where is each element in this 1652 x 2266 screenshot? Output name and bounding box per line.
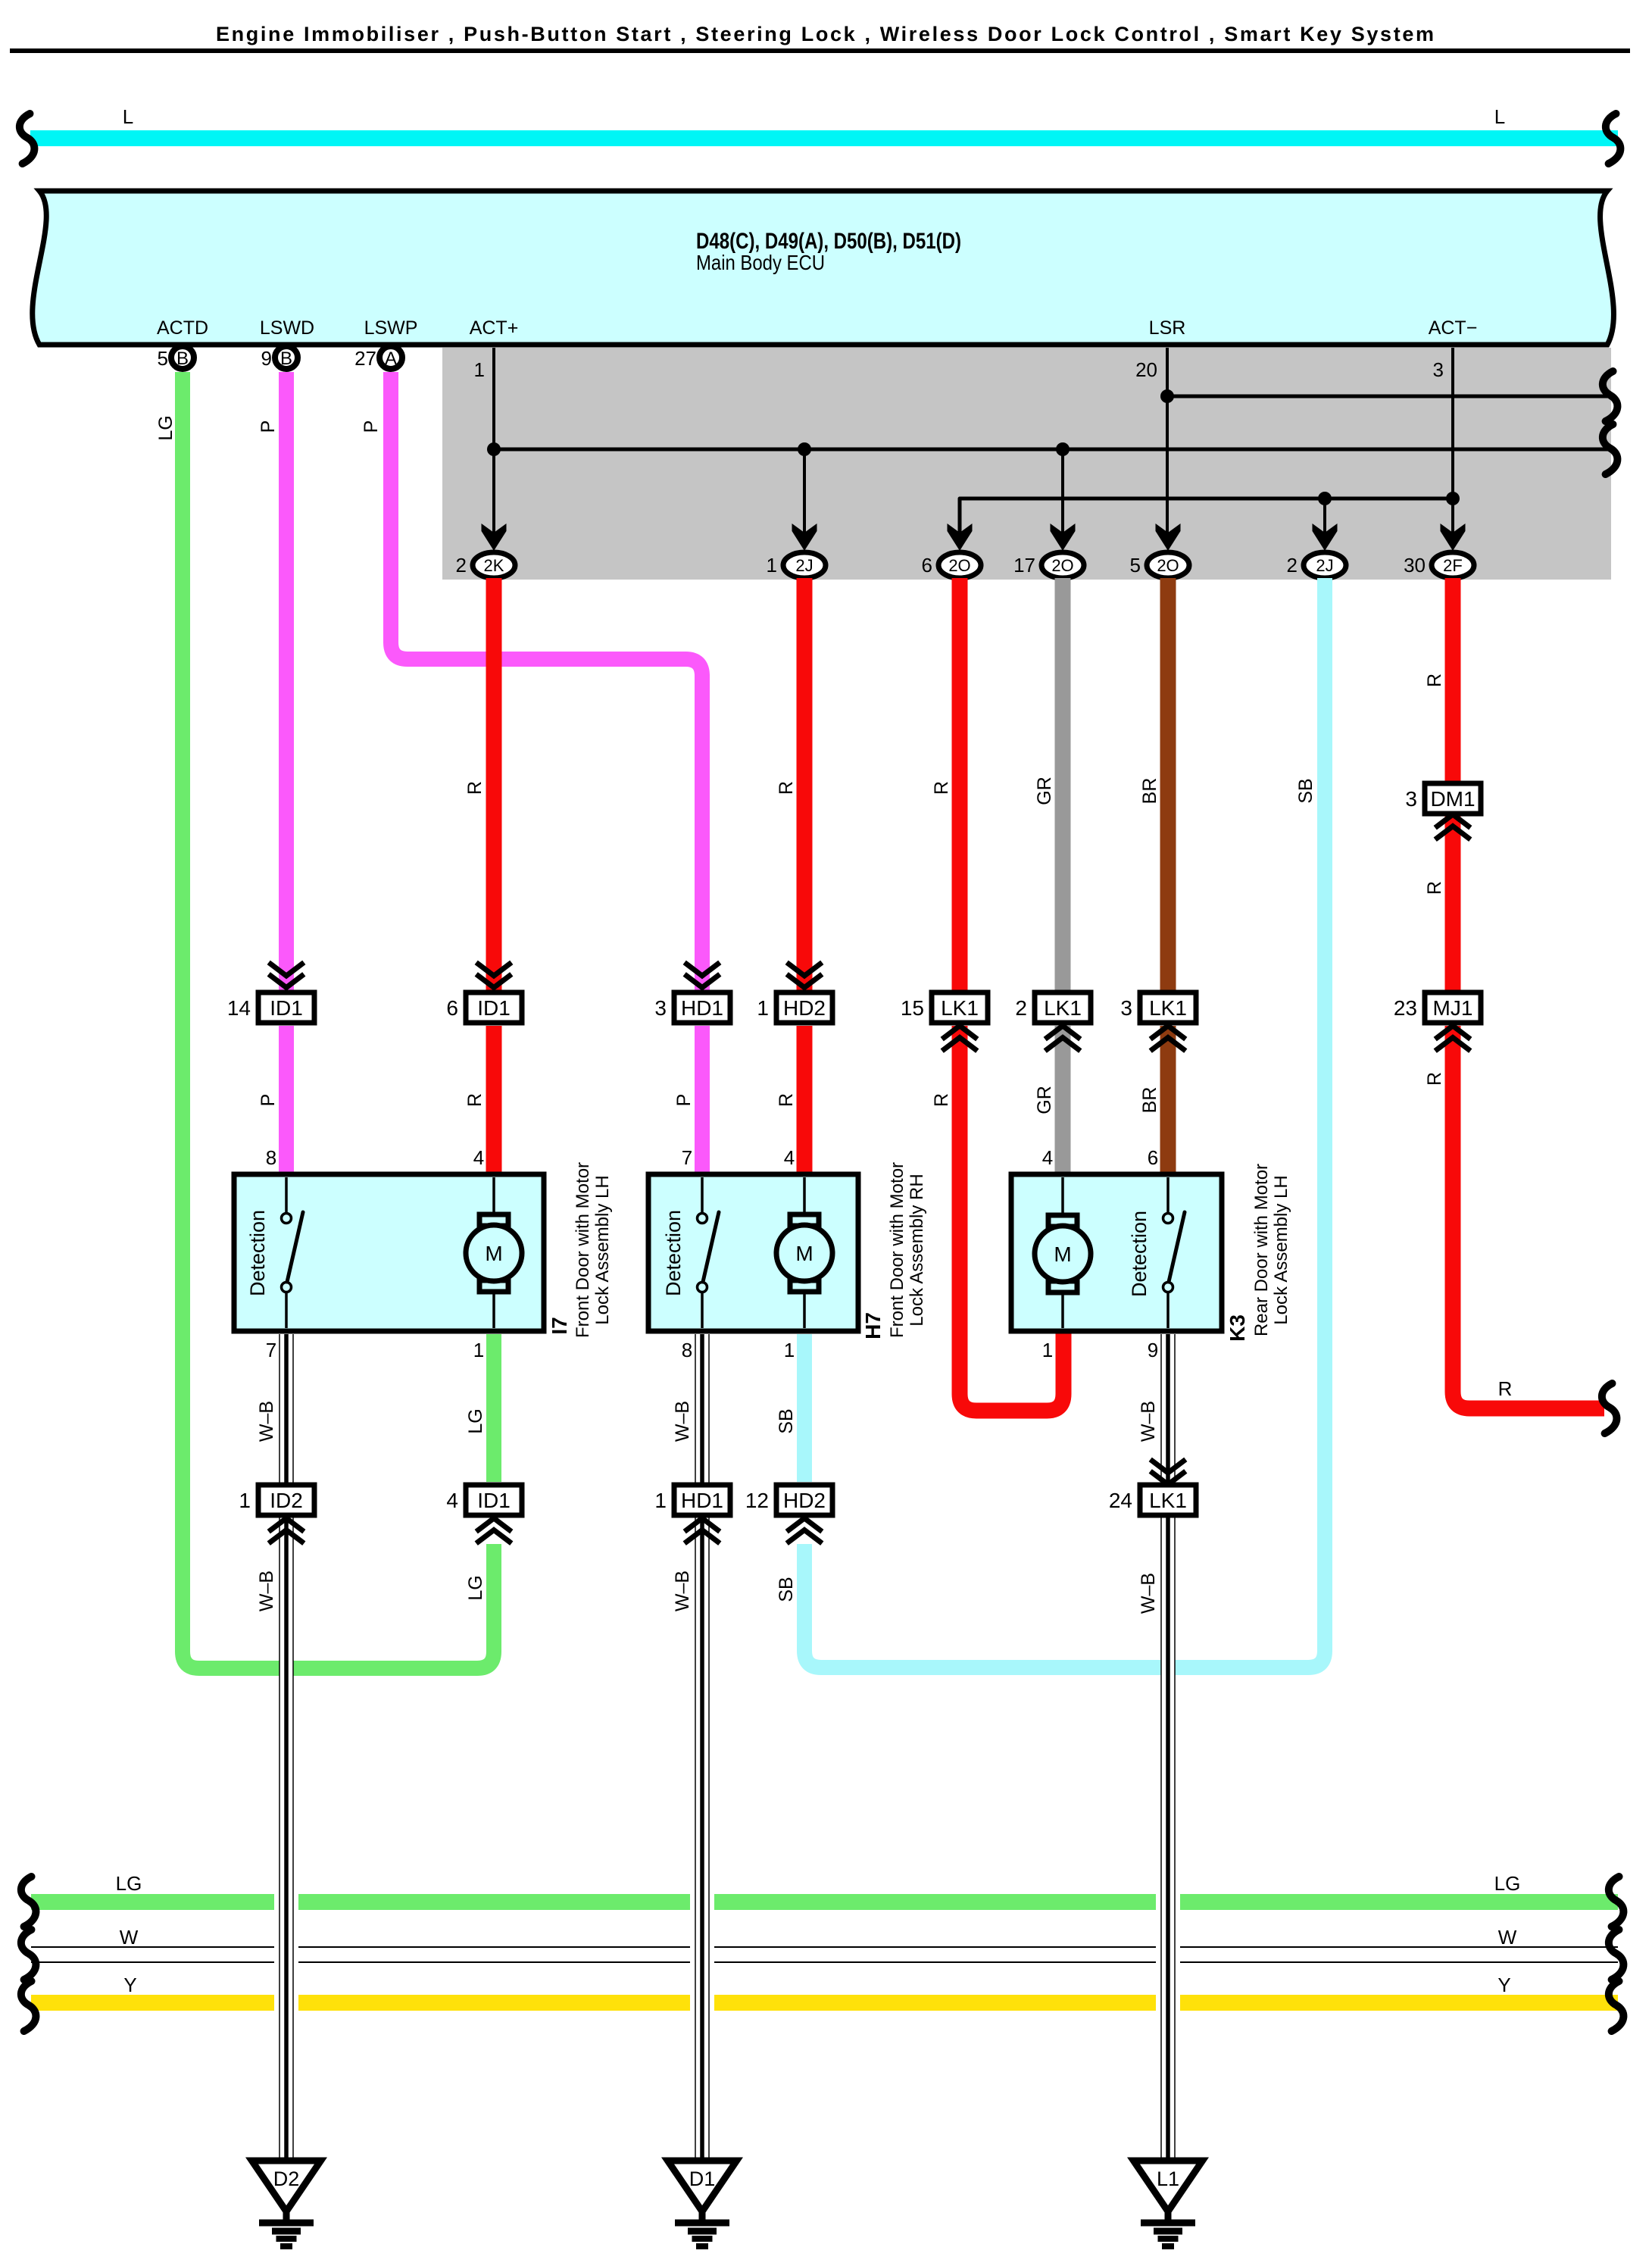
svg-text:I7: I7: [548, 1317, 571, 1334]
svg-text:R: R: [1424, 1072, 1445, 1086]
svg-text:1: 1: [757, 996, 769, 1020]
svg-text:15: 15: [901, 996, 924, 1020]
break symbol L bus left: [20, 114, 35, 164]
svg-text:17: 17: [1013, 554, 1035, 577]
svg-text:Lock Assembly LH: Lock Assembly LH: [1271, 1175, 1291, 1324]
junction dot row2 x1062: [798, 442, 811, 456]
svg-text:LG: LG: [465, 1408, 486, 1433]
wire R from 2K: [486, 578, 502, 990]
svg-text:Detection: Detection: [662, 1210, 685, 1296]
wire harness row3: [960, 499, 1453, 533]
svg-text:R: R: [931, 1093, 952, 1107]
K3 name label: [1251, 1164, 1291, 1336]
svg-text:R: R: [776, 781, 797, 795]
svg-text:Detection: Detection: [246, 1210, 269, 1296]
arrow into pin x=1542: [1156, 524, 1181, 551]
wire LG from ACTD: [183, 372, 494, 1668]
wire W-B I7 pin7 to ground D2: [256, 1334, 294, 2158]
svg-text:24: 24: [1109, 1489, 1132, 1512]
wire label W-B below LK1: [1138, 1573, 1159, 1614]
svg-text:2K: 2K: [484, 556, 504, 575]
connector 1 HD1: [654, 1485, 730, 1515]
chevron below 2 LK1: [1048, 1026, 1079, 1049]
wire BR from 2O pin5: [1160, 578, 1176, 990]
H7 motor lead to pin1: [803, 1292, 806, 1328]
svg-text:LSWP: LSWP: [364, 317, 418, 339]
ground L1: [1134, 2161, 1203, 2246]
I7 pin 8 lead: [266, 1146, 286, 1213]
svg-text:D1: D1: [689, 2168, 716, 2190]
K3 pin 4 lead: [1042, 1146, 1063, 1214]
junction dot ACT+ row2: [487, 442, 501, 456]
arrow into pin x=1403: [1051, 524, 1076, 551]
ECU pin label LSWD: [260, 317, 314, 339]
wire label R 2F: [1424, 674, 1445, 687]
title: Engine Immobiliser , Push-Button Start , Steering Lock , Wireless Door Lock Control , Smart Key System: [216, 23, 1434, 45]
wire label W-B below ID2: [256, 1571, 277, 1611]
wire label GR: [1034, 777, 1055, 805]
break symbol W bus left: [21, 1930, 36, 1980]
bus label Y right: [1497, 1974, 1510, 1996]
svg-text:4: 4: [784, 1146, 795, 1169]
wire label SB: [1295, 778, 1316, 803]
wire label W-B below HD1: [672, 1571, 693, 1611]
chevron into 6 ID1: [479, 964, 510, 988]
svg-text:L: L: [123, 105, 133, 128]
svg-text:ID1: ID1: [477, 996, 511, 1020]
svg-text:MJ1: MJ1: [1433, 996, 1473, 1020]
arrow into pin x=1918: [1441, 524, 1466, 551]
svg-text:6: 6: [446, 996, 458, 1020]
connector pin 2 2J: [1287, 552, 1346, 578]
svg-text:HD2: HD2: [783, 996, 826, 1020]
I7 detection switch: [246, 1210, 303, 1296]
connector 3 LK1: [1120, 992, 1196, 1023]
wire R DM1 to MJ1: [1445, 816, 1461, 990]
svg-text:W–B: W–B: [1138, 1401, 1159, 1442]
wire W-B K3 pin9 to ground L1: [1138, 1334, 1176, 2158]
wire SB H7 pin1: [776, 1334, 804, 1482]
svg-text:ID1: ID1: [477, 1489, 511, 1512]
svg-text:LK1: LK1: [1044, 996, 1082, 1020]
wire R from 2J pin1: [797, 578, 813, 990]
svg-text:12: 12: [745, 1489, 769, 1512]
wire drop to 2O pin17: [1061, 449, 1064, 533]
svg-text:2O: 2O: [948, 556, 970, 575]
arrow into pin x=1267: [948, 524, 973, 551]
H7 switch lead to pin8: [701, 1292, 704, 1328]
svg-text:7: 7: [682, 1146, 692, 1169]
connector 12 HD2: [745, 1485, 832, 1515]
wire label P LSWP: [361, 420, 382, 433]
break symbol LG bus left: [21, 1877, 36, 1927]
K3 motor lead to pin1: [1061, 1292, 1064, 1328]
connector 1 HD2: [757, 992, 832, 1023]
wire label R 2K: [464, 781, 486, 795]
svg-text:L1: L1: [1157, 2168, 1179, 2190]
svg-text:1: 1: [784, 1339, 795, 1361]
svg-text:1: 1: [654, 1489, 667, 1512]
connector pin 1 2J: [767, 552, 826, 578]
svg-text:D2: D2: [273, 2168, 300, 2190]
wire BR to K3 pin6: [1139, 1026, 1168, 1177]
svg-text:P: P: [258, 420, 279, 433]
svg-text:4: 4: [1042, 1146, 1053, 1169]
connector 4 ID1: [446, 1485, 522, 1515]
connector 6 ID1: [446, 992, 522, 1023]
svg-text:2: 2: [1287, 554, 1298, 577]
K3 reference label: [1226, 1314, 1249, 1342]
wire W bus: [31, 1947, 1618, 1962]
svg-text:Main Body ECU: Main Body ECU: [696, 251, 825, 274]
chevron below 1 ID2: [271, 1518, 302, 1542]
chevron into 3 HD1: [687, 964, 718, 988]
svg-text:LSWD: LSWD: [260, 317, 314, 339]
svg-text:R: R: [931, 781, 952, 795]
chevron below 3 LK1: [1153, 1026, 1184, 1049]
connector pin 5 2O: [1130, 552, 1189, 578]
wire P from LSWD: [279, 372, 294, 990]
connector 2 LK1: [1015, 992, 1091, 1023]
ground D1: [668, 2161, 737, 2246]
svg-text:1: 1: [239, 1489, 251, 1512]
ECU pin label LSR: [1149, 317, 1186, 339]
svg-text:B: B: [176, 348, 189, 369]
svg-text:1: 1: [767, 554, 777, 577]
svg-text:LSR: LSR: [1149, 317, 1186, 339]
H7 reference label: [861, 1312, 885, 1339]
svg-text:2O: 2O: [1051, 556, 1073, 575]
svg-text:R: R: [464, 1093, 486, 1107]
arrow into pin x=652: [482, 524, 507, 551]
wire GR to K3 pin4: [1034, 1026, 1063, 1177]
svg-text:R: R: [1498, 1377, 1513, 1400]
svg-text:2: 2: [456, 554, 467, 577]
wire label R bottom right: [1498, 1377, 1513, 1400]
arrow into pin x=1062: [792, 524, 817, 551]
chevron below 15 LK1: [945, 1026, 976, 1049]
svg-text:W: W: [120, 1926, 139, 1949]
svg-text:27: 27: [354, 347, 376, 370]
wire LG bus: [31, 1894, 1618, 1910]
svg-text:W–B: W–B: [1138, 1573, 1159, 1614]
wire P LSWD to I7: [258, 1026, 286, 1177]
svg-text:1: 1: [473, 1339, 484, 1361]
wire drop to 2J pin2: [1323, 499, 1326, 533]
K3 switch lead to pin9: [1166, 1292, 1170, 1328]
svg-text:W: W: [1498, 1926, 1517, 1949]
wire R to I7 pin4: [464, 1026, 494, 1177]
connector pin 17 2O: [1013, 552, 1084, 578]
H7 name label: [887, 1162, 927, 1338]
wire P from LSWP: [391, 372, 702, 990]
break symbol L bus right: [1606, 114, 1621, 164]
connector 1 ID2: [239, 1485, 314, 1515]
svg-text:H7: H7: [861, 1312, 885, 1339]
svg-text:23: 23: [1394, 996, 1417, 1020]
connector pin 30 2F: [1404, 552, 1474, 578]
svg-text:BR: BR: [1139, 778, 1160, 805]
ECU pin 27 A: [354, 346, 402, 370]
svg-text:LK1: LK1: [1149, 1489, 1187, 1512]
wire label P LSWD: [258, 420, 279, 433]
arrow into pin x=1749: [1313, 524, 1338, 551]
svg-text:M: M: [795, 1242, 813, 1265]
wire label SB below HD2: [776, 1577, 797, 1602]
wire GR from 2O pin17: [1055, 578, 1071, 990]
svg-text:3: 3: [1120, 996, 1132, 1020]
wire L cyan bus: [30, 130, 1618, 146]
I7 pin 4 lead: [473, 1146, 494, 1214]
svg-text:SB: SB: [776, 1577, 797, 1602]
connector pin 2 2K: [456, 552, 515, 578]
svg-text:9: 9: [261, 347, 272, 370]
ECU pin 1 ACT+ stub wire: [474, 348, 494, 533]
wire label BR: [1139, 778, 1160, 805]
svg-text:Lock Assembly RH: Lock Assembly RH: [907, 1174, 927, 1326]
svg-text:M: M: [1054, 1242, 1071, 1266]
wire label R 2O6: [931, 781, 952, 795]
chevron below 4 ID1: [479, 1518, 510, 1542]
chevron into 24 LK1: [1153, 1461, 1184, 1485]
H7 pin 8 label: [682, 1339, 692, 1361]
svg-text:Y: Y: [123, 1974, 136, 1996]
svg-text:30: 30: [1404, 554, 1426, 577]
svg-text:Y: Y: [1497, 1974, 1510, 1996]
svg-text:7: 7: [266, 1339, 276, 1361]
chevron into 1 HD2: [789, 964, 820, 988]
wire LG I7 pin1 to ID1: [465, 1334, 494, 1482]
bus label Y left: [123, 1974, 136, 1996]
component I7 Front Door with Motor Lock Assembly LH box: [234, 1174, 544, 1331]
svg-text:GR: GR: [1034, 1086, 1055, 1114]
svg-text:W–B: W–B: [256, 1571, 277, 1611]
svg-text:K3: K3: [1226, 1314, 1249, 1342]
I7 motor M: [466, 1214, 522, 1292]
ECU pin label ACT&#8722;: [1429, 317, 1478, 339]
svg-text:5: 5: [1130, 554, 1141, 577]
K3 pin 6 lead: [1148, 1146, 1168, 1213]
node label L left: [123, 105, 133, 128]
break symbol Y bus right: [1609, 1981, 1624, 2031]
svg-text:LK1: LK1: [1149, 996, 1187, 1020]
svg-text:1: 1: [1042, 1339, 1053, 1361]
svg-text:Rear Door with Motor: Rear Door with Motor: [1251, 1164, 1272, 1336]
H7 motor M: [776, 1214, 832, 1292]
I7 name label: [573, 1162, 613, 1338]
I7 pin 7 label: [266, 1339, 276, 1361]
svg-text:6: 6: [922, 554, 932, 577]
svg-text:HD2: HD2: [783, 1489, 826, 1512]
ECU pin label ACTD: [157, 317, 208, 339]
svg-text:2O: 2O: [1157, 556, 1179, 575]
svg-text:4: 4: [446, 1489, 458, 1512]
svg-text:5: 5: [158, 347, 168, 370]
svg-text:B: B: [280, 348, 292, 369]
svg-text:R: R: [1424, 881, 1445, 895]
wire harness row2 from ACT+: [494, 448, 1609, 452]
break symbol LG bus right: [1609, 1877, 1624, 1927]
K3 pin 1 label: [1042, 1339, 1053, 1361]
connector 23 MJ1: [1394, 992, 1481, 1023]
svg-text:A: A: [385, 348, 397, 369]
svg-text:ACTD: ACTD: [157, 317, 208, 339]
wire R LK1-15 to K3 pin1: [931, 1026, 1063, 1411]
wire SB from 2J pin2: [804, 578, 1325, 1667]
svg-text:W–B: W–B: [256, 1401, 277, 1442]
break symbol harness row1: [1603, 371, 1618, 421]
I7 pin 1 label: [473, 1339, 484, 1361]
svg-text:LG: LG: [465, 1575, 486, 1600]
H7 pin 4 lead: [784, 1146, 804, 1214]
chevron below 1 HD1: [687, 1518, 718, 1542]
break symbol W bus right: [1609, 1930, 1624, 1980]
wire W-B H7 pin8 to ground D1: [672, 1334, 710, 2158]
connector 3 HD1: [654, 992, 730, 1023]
svg-text:R: R: [464, 781, 486, 795]
svg-text:2J: 2J: [795, 556, 813, 575]
svg-text:ACT+: ACT+: [470, 317, 519, 339]
svg-text:P: P: [361, 420, 382, 433]
I7 motor lead to pin1: [492, 1292, 495, 1328]
svg-text:2F: 2F: [1443, 556, 1463, 575]
svg-text:2: 2: [1015, 996, 1027, 1020]
svg-text:Front Door with Motor: Front Door with Motor: [887, 1162, 907, 1338]
wire label R mid: [1424, 881, 1445, 895]
svg-text:LK1: LK1: [941, 996, 979, 1020]
svg-text:L: L: [1494, 105, 1505, 128]
wire drop to 2J pin1: [803, 449, 806, 533]
node label L right: [1494, 105, 1505, 128]
svg-text:2J: 2J: [1316, 556, 1333, 575]
break symbol Y bus left: [21, 1981, 36, 2031]
wire label LG below ID1: [465, 1575, 486, 1600]
svg-text:3: 3: [1433, 358, 1444, 381]
svg-text:GR: GR: [1034, 777, 1055, 805]
svg-text:Detection: Detection: [1128, 1211, 1151, 1297]
svg-text:1: 1: [474, 358, 485, 381]
bus label W left: [120, 1926, 139, 1949]
svg-text:P: P: [258, 1094, 279, 1107]
junction dot LSR row1: [1160, 389, 1174, 403]
svg-text:14: 14: [227, 996, 251, 1020]
wire R from 2O pin6: [952, 578, 968, 990]
svg-text:Engine Immobiliser , Push-Butt: Engine Immobiliser , Push-Button Start ,…: [216, 23, 1434, 45]
break symbol R wire end: [1602, 1383, 1617, 1433]
wire P to H7 pin7: [673, 1026, 702, 1177]
wire label LG top: [155, 415, 176, 440]
svg-text:DM1: DM1: [1430, 787, 1475, 811]
svg-text:3: 3: [1405, 787, 1417, 811]
svg-text:3: 3: [654, 996, 667, 1020]
svg-text:P: P: [673, 1094, 695, 1107]
ECU pin label ACT+: [470, 317, 519, 339]
K3 motor M: [1035, 1215, 1091, 1292]
ground D2: [252, 2161, 321, 2246]
svg-text:BR: BR: [1139, 1087, 1160, 1114]
svg-text:W–B: W–B: [672, 1401, 693, 1442]
wire Y bus: [31, 1995, 1618, 2011]
svg-text:8: 8: [266, 1146, 276, 1169]
ECU pin label LSWP: [364, 317, 418, 339]
wire label R 2J: [776, 781, 797, 795]
svg-text:LG: LG: [1494, 1872, 1521, 1895]
svg-text:6: 6: [1148, 1146, 1158, 1169]
chevron below DM1: [1438, 814, 1469, 838]
wire harness row1 from LSR: [1167, 395, 1609, 399]
svg-text:4: 4: [473, 1146, 484, 1169]
svg-text:W–B: W–B: [672, 1571, 693, 1611]
svg-text:SB: SB: [1295, 778, 1316, 803]
svg-text:ID1: ID1: [270, 996, 303, 1020]
wire R MJ1 down and right: [1424, 1026, 1604, 1408]
H7 pin 1 label: [784, 1339, 795, 1361]
svg-text:LG: LG: [155, 415, 176, 440]
svg-text:LG: LG: [116, 1872, 142, 1895]
svg-text:R: R: [776, 1093, 797, 1107]
svg-text:Lock Assembly LH: Lock Assembly LH: [592, 1175, 613, 1324]
bus label W right: [1498, 1926, 1517, 1949]
junction dot row3 x1749: [1318, 492, 1332, 505]
harness junction gray box: [442, 348, 1611, 580]
svg-text:20: 20: [1135, 358, 1157, 381]
ECU pin 3 ACT- stub wire: [1433, 348, 1453, 533]
bus label LG left: [116, 1872, 142, 1895]
svg-text:9: 9: [1148, 1339, 1158, 1361]
chevron below 12 HD2: [789, 1518, 820, 1542]
svg-text:HD1: HD1: [681, 1489, 723, 1512]
break symbol harness row2: [1603, 424, 1618, 474]
svg-text:HD1: HD1: [681, 996, 723, 1020]
ECU D48(C) D49(A) D50(B) D51(D) Main Body ECU box: [33, 191, 1614, 345]
K3 pin 9 label: [1148, 1339, 1158, 1361]
bus label LG right: [1494, 1872, 1521, 1895]
component H7 Front Door with Motor Lock Assembly RH box: [648, 1174, 858, 1331]
chevron below 23 MJ1: [1438, 1026, 1469, 1049]
wire R from 2F: [1445, 578, 1461, 781]
H7 pin 7 lead: [682, 1146, 702, 1213]
connector 24 LK1: [1109, 1485, 1196, 1515]
component K3 Rear Door with Motor Lock Assembly LH box: [1011, 1174, 1222, 1331]
H7 detection switch: [662, 1210, 719, 1296]
ECU pin 9 B: [261, 346, 298, 370]
svg-text:M: M: [485, 1242, 502, 1265]
svg-text:R: R: [1424, 674, 1445, 687]
svg-text:ID2: ID2: [270, 1489, 303, 1512]
wire R to H7 pin4: [776, 1026, 804, 1177]
junction dot row2 x1403: [1056, 442, 1070, 456]
title underline: [10, 48, 1630, 53]
I7 switch lead to pin7: [285, 1292, 288, 1328]
connector 3 DM1: [1405, 783, 1481, 814]
svg-text:SB: SB: [776, 1408, 797, 1433]
connector 14 ID1: [227, 992, 314, 1023]
I7 reference label: [548, 1317, 571, 1334]
ECU pin 5 B: [158, 346, 194, 370]
connector 15 LK1: [901, 992, 988, 1023]
K3 detection switch: [1128, 1211, 1185, 1297]
ECU pin 20 LSR stub wire: [1135, 348, 1167, 533]
junction dot row3 ACT-: [1446, 492, 1460, 505]
chevron into 14 ID1: [271, 964, 302, 988]
svg-text:8: 8: [682, 1339, 692, 1361]
svg-text:Front Door with Motor: Front Door with Motor: [573, 1162, 593, 1338]
connector pin 6 2O: [922, 552, 981, 578]
svg-text:ACT−: ACT−: [1429, 317, 1478, 339]
